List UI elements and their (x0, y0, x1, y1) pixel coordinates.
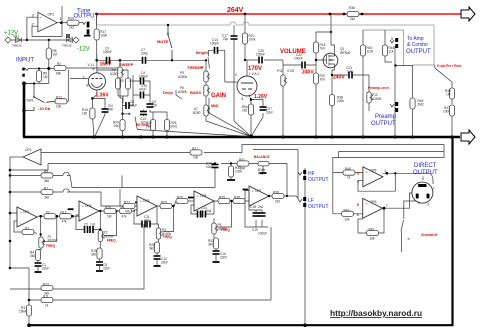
svg-text:R11: R11 (43, 295, 49, 299)
svg-text:OUTPUT: OUTPUT (74, 13, 99, 19)
svg-text:FREQ: FREQ (107, 239, 116, 243)
svg-text:3: 3 (427, 203, 429, 207)
svg-text:1uF: 1uF (347, 70, 353, 74)
svg-text:Preamp Level: Preamp Level (368, 86, 389, 90)
svg-text:22uF: 22uF (161, 261, 168, 265)
svg-text:R9: R9 (44, 170, 48, 174)
svg-text:3k0: 3k0 (208, 243, 213, 247)
svg-text:4.7M: 4.7M (287, 69, 294, 73)
svg-text:2k2: 2k2 (275, 200, 280, 204)
svg-text:OUTPUT: OUTPUT (413, 170, 438, 176)
svg-text:33k: 33k (370, 237, 376, 241)
svg-text:1M: 1M (107, 215, 112, 219)
svg-text:OP1: OP1 (23, 210, 30, 214)
svg-text:& Combo: & Combo (407, 42, 428, 48)
svg-text:TREBLE: TREBLE (187, 65, 203, 70)
svg-text:11k: 11k (389, 50, 394, 54)
svg-text:3n3: 3n3 (144, 219, 150, 223)
svg-text:100nF: 100nF (294, 57, 303, 61)
svg-text:R40: R40 (345, 167, 351, 171)
svg-text:P11: P11 (277, 69, 283, 73)
svg-text:A200K: A200K (372, 97, 382, 101)
svg-text:47uF: 47uF (139, 88, 146, 92)
svg-text:10k: 10k (56, 105, 62, 109)
svg-text:1.36V: 1.36V (96, 93, 110, 99)
svg-text:100k: 100k (249, 38, 256, 42)
svg-text:OUTPUT: OUTPUT (308, 204, 329, 210)
svg-text:R36: R36 (349, 6, 355, 10)
svg-text:http://basokby.narod.ru: http://basokby.narod.ru (330, 308, 422, 318)
svg-text:Deep: Deep (163, 90, 173, 95)
svg-text:10uF: 10uF (130, 104, 137, 108)
svg-text:3n3: 3n3 (206, 209, 212, 213)
svg-text:240V: 240V (333, 75, 345, 81)
svg-text:OP2: OP2 (25, 148, 32, 152)
svg-text:7k0: 7k0 (320, 47, 325, 51)
svg-text:OP5: OP5 (370, 169, 377, 173)
svg-text:R13: R13 (43, 283, 49, 287)
svg-text:(NV): (NV) (171, 125, 178, 129)
svg-text:-12V: -12V (77, 47, 90, 53)
svg-text:10uF: 10uF (206, 165, 213, 169)
svg-text:OP3: OP3 (48, 13, 55, 17)
svg-text:264V: 264V (227, 7, 244, 14)
svg-text:P10: P10 (258, 172, 264, 176)
svg-text:IRF840: IRF840 (340, 51, 351, 55)
svg-text:MUTE: MUTE (157, 39, 169, 44)
svg-text:3k0: 3k0 (149, 247, 154, 251)
svg-text:A250k: A250k (178, 90, 187, 94)
svg-text:MID: MID (211, 103, 218, 108)
svg-text:FREQ: FREQ (163, 235, 172, 239)
svg-text:2: 2 (418, 201, 420, 205)
svg-text:240V: 240V (302, 70, 314, 76)
svg-text:22uF: 22uF (103, 267, 110, 271)
svg-text:R35: R35 (219, 196, 225, 200)
svg-text:22n: 22n (152, 104, 158, 108)
svg-text:2k2: 2k2 (350, 17, 355, 21)
svg-text:22nF: 22nF (220, 256, 227, 260)
svg-text:B100A: B100A (48, 239, 58, 243)
svg-text:Preamp: Preamp (375, 114, 397, 120)
svg-text:R38: R38 (273, 191, 279, 195)
svg-text:R27: R27 (192, 147, 198, 151)
svg-text:22uF: 22uF (42, 267, 49, 271)
svg-text:1k2: 1k2 (69, 26, 74, 30)
svg-text:100k: 100k (443, 110, 450, 114)
svg-text:GAIN: GAIN (211, 93, 226, 99)
svg-text:7k0: 7k0 (320, 78, 325, 82)
svg-text:240: 240 (240, 167, 246, 171)
svg-text:1 V.A.1: 1 V.A.1 (249, 72, 259, 76)
svg-text:A250k: A250k (178, 75, 187, 79)
svg-text:47k: 47k (62, 220, 68, 224)
svg-text:1.26V: 1.26V (254, 94, 268, 100)
svg-text:R16: R16 (105, 206, 111, 210)
svg-text:FREQ: FREQ (221, 228, 230, 232)
svg-text:15kA: 15kA (19, 310, 27, 314)
svg-text:R2: R2 (57, 62, 61, 66)
svg-text:100pF: 100pF (210, 42, 219, 46)
svg-text:OP6: OP6 (370, 200, 377, 204)
svg-text:R12: R12 (56, 96, 62, 100)
svg-text:OP8: OP8 (200, 194, 207, 198)
svg-text:OUTPUT: OUTPUT (371, 121, 396, 127)
svg-text:100k: 100k (337, 99, 344, 103)
svg-text:78M12E: 78M12E (12, 44, 22, 48)
svg-text:47k: 47k (125, 210, 131, 214)
svg-text:R39: R39 (234, 196, 240, 200)
svg-text:R7: R7 (44, 187, 48, 191)
svg-text:BASS: BASS (190, 90, 201, 95)
svg-text:FREQ: FREQ (46, 244, 55, 248)
svg-text:R25: R25 (161, 201, 167, 205)
svg-text:100k: 100k (100, 34, 107, 38)
svg-text:1M: 1M (446, 93, 451, 97)
svg-text:220p: 220p (141, 52, 148, 56)
svg-text:110k: 110k (367, 50, 374, 54)
svg-text:R41: R41 (344, 208, 350, 212)
svg-text:C2: C2 (84, 223, 88, 227)
svg-text:33k: 33k (345, 217, 351, 221)
svg-text:2M2: 2M2 (418, 103, 424, 107)
svg-text:R29: R29 (177, 196, 183, 200)
svg-text:SW1: SW1 (27, 99, 34, 103)
svg-text:22p: 22p (223, 37, 229, 41)
svg-text:DIRECT: DIRECT (414, 163, 437, 169)
svg-text:R13: R13 (61, 211, 67, 215)
svg-text:OP7: OP7 (255, 189, 262, 193)
svg-text:1k5: 1k5 (242, 109, 247, 113)
svg-text:1k: 1k (347, 176, 351, 180)
svg-text:1: 1 (433, 186, 435, 190)
svg-text:RD Shift: RD Shift (136, 123, 150, 127)
svg-text:1M: 1M (43, 75, 48, 79)
svg-text:22uF: 22uF (266, 111, 273, 115)
svg-text:100uF: 100uF (258, 232, 267, 236)
svg-text:100nF: 100nF (256, 53, 265, 57)
svg-text:C18: C18 (250, 205, 256, 209)
svg-text:F2: F2 (46, 211, 50, 215)
svg-text:1k: 1k (45, 304, 49, 308)
svg-text:24F: 24F (108, 108, 114, 112)
svg-text:-: - (40, 26, 41, 30)
svg-text:OP4: OP4 (85, 204, 92, 208)
svg-text:R27: R27 (124, 201, 130, 205)
svg-text:Bright: Bright (196, 50, 208, 55)
svg-text:3k0: 3k0 (44, 196, 49, 200)
svg-text:SWEEP: SWEEP (119, 62, 134, 67)
svg-text:3k0: 3k0 (30, 254, 35, 258)
svg-text:3k0: 3k0 (44, 179, 49, 183)
svg-text:-10 Db: -10 Db (38, 106, 51, 111)
svg-text:10k: 10k (193, 156, 199, 160)
svg-text:47k: 47k (122, 215, 128, 219)
svg-text:79M12E: 79M12E (62, 44, 72, 48)
svg-text:INPUT: INPUT (16, 58, 34, 64)
svg-text:OP6: OP6 (143, 199, 150, 203)
svg-text:R42: R42 (369, 228, 375, 232)
svg-text:+: + (40, 15, 42, 19)
svg-text:68k: 68k (56, 72, 62, 76)
svg-text:24k: 24k (114, 124, 120, 128)
svg-text:2n2: 2n2 (258, 205, 264, 209)
svg-text:G out Pre / Post: G out Pre / Post (437, 64, 462, 68)
svg-text:100nF: 100nF (103, 50, 112, 54)
svg-text:BALANCE: BALANCE (254, 155, 270, 159)
svg-text:B250: B250 (193, 111, 201, 115)
svg-text:1u2: 1u2 (90, 223, 96, 227)
svg-text:GroundLift: GroundLift (421, 233, 438, 237)
svg-text:R31: R31 (239, 158, 245, 162)
svg-text:1M: 1M (53, 53, 58, 57)
svg-text:OUTPUT: OUTPUT (406, 49, 431, 55)
svg-text:OUTPUT: OUTPUT (308, 177, 329, 183)
svg-text:3k0: 3k0 (91, 253, 96, 257)
svg-text:R1: R1 (25, 227, 29, 231)
svg-text:1k5: 1k5 (82, 112, 87, 116)
